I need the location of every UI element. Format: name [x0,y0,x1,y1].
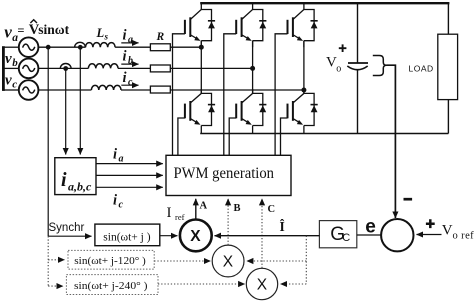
wire phase a [38,46,85,48]
node phase c leg3 [301,88,306,93]
svg-text:PWM generation: PWM generation [174,165,275,182]
block Gc [319,221,356,248]
wire Gc to M1 [215,235,320,237]
svg-text:C: C [342,232,350,244]
wire phase b mid [118,67,150,69]
label minus [404,198,413,201]
wire ic out to PWM [96,186,163,188]
block sin2 [68,250,154,269]
IGBT Q6 bottom leg3 with diode [281,89,318,155]
IGBT Q2 top leg2 with diode [224,3,267,155]
wire M3 to PWM (C) dashed [261,199,263,268]
wire circle to Gc [357,234,382,236]
wire phase c mid [121,89,150,91]
label vb [5,51,18,69]
svg-text:o: o [336,64,341,75]
svg-text:i: i [61,169,67,191]
svg-text:X: X [190,228,201,245]
svg-text:a: a [128,35,133,46]
svg-text:X: X [257,277,268,294]
current sensor ia [75,42,86,47]
svg-text:=: = [17,24,24,38]
label va = V^ sinwt [4,20,69,44]
wire synchr dashed down [47,236,49,286]
wire sensor ia down to block [79,47,81,154]
wire synchr tap down [47,47,49,236]
svg-text:sin(ωt+ j ): sin(ωt+ j ) [103,232,150,244]
svg-text:c: c [12,79,17,91]
inductor Ls phase b [88,64,118,69]
capacitor C plate straight [348,62,368,64]
wire load top [447,3,449,34]
dc bus bottom [200,133,448,135]
svg-text:e: e [365,217,376,238]
svg-text:a: a [119,154,124,165]
label ic with arrow [121,70,138,88]
wire Vo sense to summing [387,65,396,218]
svg-text:V: V [442,223,453,239]
block sin1 [95,224,160,246]
label ic mid [113,193,124,211]
wire synchr dashed to sin3 [48,285,63,287]
current sensor ib [60,64,71,69]
wire sin2 to M2 dashed [154,260,210,262]
svg-text:a,b,c: a,b,c [68,180,92,194]
dc bus top [200,2,449,4]
wire stub c [3,89,18,91]
svg-text:i: i [123,49,127,65]
capacitor C dc-link wire top [357,3,359,63]
svg-text:C: C [268,204,276,215]
source Vb [19,59,39,79]
brace Vo sense [373,56,387,76]
svg-text:Synchr: Synchr [49,222,85,234]
wire leg2 mid [252,41,254,94]
wire phase c to leg3 [170,89,304,91]
svg-text:b: b [12,57,18,69]
wire fb dashed to M2 [247,260,306,262]
svg-text:o ref: o ref [453,230,474,241]
node tap va (synchr) [46,45,51,50]
svg-text:sin(ωt+ j-120° ): sin(ωt+ j-120° ) [74,256,146,267]
wire load bottom [447,100,449,134]
svg-text:L: L [96,26,105,40]
svg-text:ref: ref [175,212,185,222]
wire sensor ib down to block [65,69,67,155]
multiplier M3 [246,268,277,299]
svg-text:s: s [104,32,109,42]
svg-text:sin(ωt+ j-240° ): sin(ωt+ j-240° ) [74,281,148,292]
svg-text:c: c [128,77,133,88]
wire phase b to leg2 [170,67,252,69]
inductor Ls phase c [91,85,121,90]
block sin3 [66,275,158,295]
wire phase c [38,89,91,91]
svg-text:i: i [113,147,117,163]
node phase b leg2 [250,66,255,71]
wire Vo ref in [417,234,442,236]
wire ia out to PWM [96,163,163,165]
IGBT Q3 top leg3 with diode [275,3,318,155]
svg-text:I: I [167,205,172,221]
wire phase b [38,67,88,69]
load resistor [438,34,458,99]
wire M2 to PWM (B) dashed [227,199,229,245]
svg-text:A: A [200,201,208,212]
svg-text:b: b [128,56,133,67]
wire phase a mid [115,46,150,48]
svg-text:v: v [4,23,12,42]
resistor R phase b [150,65,170,72]
inductor Ls phase a [86,43,116,48]
label ia with arrow [121,28,138,46]
label Ls [96,26,109,42]
label Iref [167,205,185,222]
node phase a leg1 [199,45,204,50]
summing junction [381,219,413,251]
block ia,b,c [55,158,96,195]
svg-text:c: c [119,200,124,211]
wire neutral bus left [2,46,5,91]
svg-text:i: i [123,28,127,44]
wire synchr to sin1 [48,235,91,237]
IGBT Q1 top leg1 with diode [173,3,216,155]
resistor R phase a [150,44,170,51]
wire ib out to PWM [96,174,163,176]
wire phase a to leg1 [170,46,201,48]
label plus [426,219,435,228]
svg-text:i: i [123,70,127,86]
wire fb dashed down [305,236,307,284]
source Va [19,37,39,57]
svg-text:sinωt: sinωt [38,22,69,37]
svg-text:X: X [223,254,234,271]
multiplier M2 [212,245,244,277]
svg-text:R: R [156,31,165,43]
svg-text:B: B [234,203,241,214]
wire synchr dashed to sin2 [48,259,64,261]
wire fb dashed to M3 [281,283,307,285]
source Vc [19,80,39,100]
wire stub b [3,67,18,69]
label Vo+ [326,44,346,74]
label ia mid [113,147,124,165]
wire leg3 mid [303,41,305,94]
wire stub a [3,46,18,48]
wire leg1 mid [200,41,202,94]
svg-text:v: v [5,51,12,67]
label Vo ref [442,223,474,242]
resistor R phase c [150,86,170,93]
svg-text:Î: Î [280,219,285,234]
wire M1 to PWM (A) [195,199,197,220]
IGBT Q5 bottom leg2 with diode [229,89,266,155]
capacitor C wire bottom [357,70,359,134]
label ib with arrow [121,49,138,67]
svg-text:LOAD: LOAD [409,64,434,74]
svg-text:v: v [5,73,12,89]
block PWM generation [166,155,291,195]
multiplier M1 [180,220,212,252]
wire sin1 to M1 [160,235,178,237]
wire sin3 to M3 dashed [158,283,245,285]
svg-text:i: i [113,193,117,209]
capacitor C plate curved [347,66,367,70]
IGBT Q4 bottom leg1 with diode [178,89,215,155]
label vc [5,73,17,91]
